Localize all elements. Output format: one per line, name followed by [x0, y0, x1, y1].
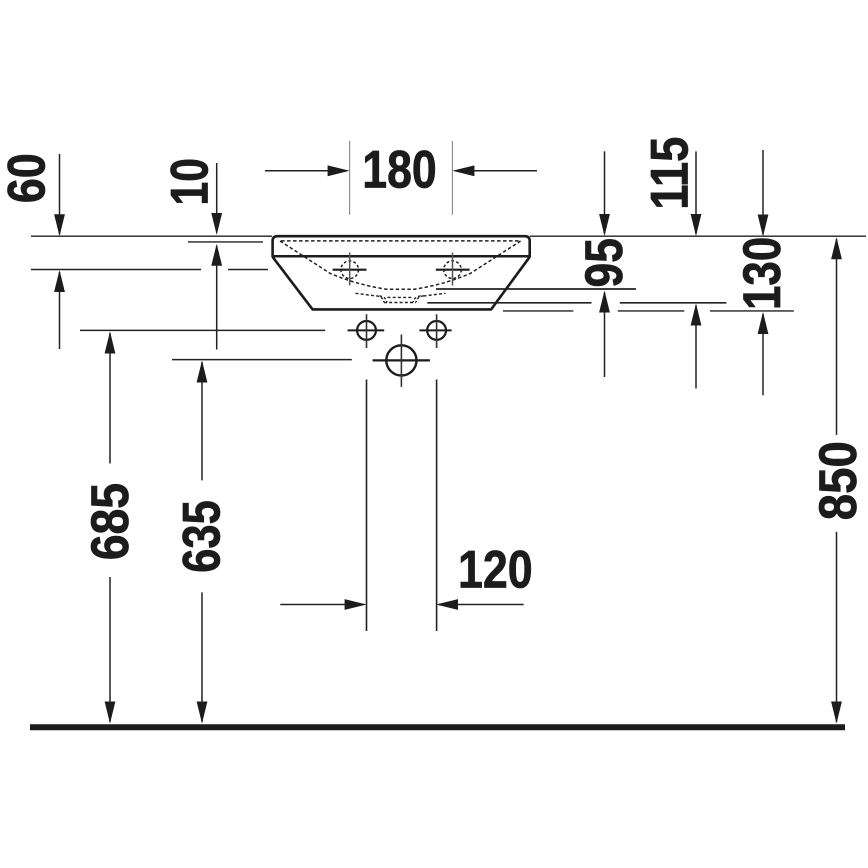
dimension 685 line [109, 333, 111, 722]
dimension 180 left arrow line [265, 170, 347, 172]
60mm reference line [31, 269, 268, 271]
10mm reference line below wall line [188, 241, 263, 243]
basin bottom edge [312, 308, 492, 311]
fixing hole right circle [427, 321, 446, 340]
130 extension line [503, 310, 794, 312]
dimension 120 right arrow line [439, 604, 524, 606]
dimension 60 arrow down [54, 214, 65, 236]
svg-text:60: 60 [0, 153, 57, 203]
tap hole left crosshair horizontal [333, 269, 367, 271]
drain recess dashed ledge right [424, 293, 446, 296]
dimension 130 arrow down [758, 215, 769, 237]
dimension 850 arrow down [831, 702, 842, 724]
basin rim band bottom edge [272, 255, 531, 258]
fixing hole left crosshair horizontal [348, 329, 385, 331]
dimension 10 line upper [216, 163, 218, 233]
95 extension line [436, 288, 636, 290]
bowl contour dashed [280, 241, 521, 289]
635 extension line [172, 359, 352, 361]
dimension 115 line upper [695, 151, 697, 233]
drain hole crosshair horizontal [373, 359, 430, 361]
basin outline: rim band [273, 236, 530, 257]
dimension 115 arrow down [691, 214, 702, 236]
svg-text:115: 115 [641, 137, 700, 210]
drain recess inner right step [413, 296, 421, 302]
basin right slant side [491, 257, 529, 309]
dimension 635 line [201, 362, 203, 722]
fixing hole left circle [357, 321, 376, 340]
drain hole crosshair vertical [400, 335, 402, 387]
tap hole right dashed circle [444, 261, 462, 279]
fixing hole left crosshair vertical [366, 314, 368, 348]
dimension 10 line lower [216, 246, 218, 350]
dimension 130 line lower [762, 314, 764, 395]
fixing hole right crosshair vertical [436, 314, 438, 348]
fixing hole right crosshair horizontal [419, 329, 451, 331]
dimension 180 right arrow line [455, 170, 537, 172]
dimension 180 left arrowhead [328, 165, 350, 176]
svg-text:95: 95 [575, 238, 634, 287]
wall reference line (top) [31, 235, 866, 237]
svg-text:10: 10 [161, 158, 220, 206]
dimension 115 arrow up [691, 304, 702, 326]
dimension 60 line upper [59, 154, 61, 234]
svg-text:635: 635 [172, 500, 231, 573]
dimension 180 extension line right [451, 141, 453, 215]
drain recess dashed ledge left [356, 293, 377, 296]
floor line [30, 724, 845, 730]
drain recess bottom dashed [384, 302, 416, 304]
dimension 180 right arrowhead [452, 165, 474, 176]
svg-text:130: 130 [733, 237, 792, 310]
115 extension line [427, 302, 726, 304]
dimension 95 line upper [604, 151, 606, 234]
dimension 10 arrow up [211, 244, 222, 266]
685 extension line [80, 329, 325, 331]
dimension 120 left arrowhead [345, 599, 367, 610]
dimension 850 arrow up [831, 237, 842, 259]
svg-text:120: 120 [458, 541, 533, 600]
dimension 120 right arrowhead [436, 599, 458, 610]
svg-text:850: 850 [809, 441, 868, 520]
dimension 115 line lower [695, 306, 697, 389]
tap hole left crosshair vertical [349, 253, 351, 286]
dimension 120 extension line left [366, 380, 368, 632]
drain recess outer left step [377, 296, 385, 302]
dimension 180 extension line left [349, 141, 351, 215]
dimension 95 arrow down [599, 214, 610, 236]
drain recess outer right step [416, 296, 424, 302]
dimension 130 arrow up [758, 312, 769, 334]
svg-text:180: 180 [362, 141, 437, 200]
drain recess inner left step [380, 296, 388, 302]
dimension 95 line lower [604, 293, 606, 378]
svg-text:685: 685 [81, 483, 140, 560]
dimension 130 line upper [762, 150, 764, 234]
dimension 685 arrow up [105, 332, 116, 354]
dimension 120 extension line right [436, 380, 438, 632]
dimension 635 arrow up [197, 361, 208, 383]
drain recess middle dashed [388, 296, 413, 298]
dimension 10 arrow down [211, 213, 222, 235]
dimension 120 left arrow line [280, 604, 364, 606]
inner rim dashed line [281, 240, 521, 242]
basin left slant side [273, 257, 313, 309]
tap hole left dashed circle [341, 261, 359, 279]
dimension 60 arrow up [54, 270, 65, 292]
dimension 60 line lower [59, 272, 61, 349]
drain hole circle [386, 345, 416, 375]
dimension 850 line [836, 239, 838, 722]
dimension 635 arrow down [197, 702, 208, 724]
tap hole right crosshair horizontal [436, 269, 470, 271]
dimension 95 arrow up [599, 291, 610, 313]
dimension 685 arrow down [105, 702, 116, 724]
tap hole right crosshair vertical [452, 253, 454, 286]
